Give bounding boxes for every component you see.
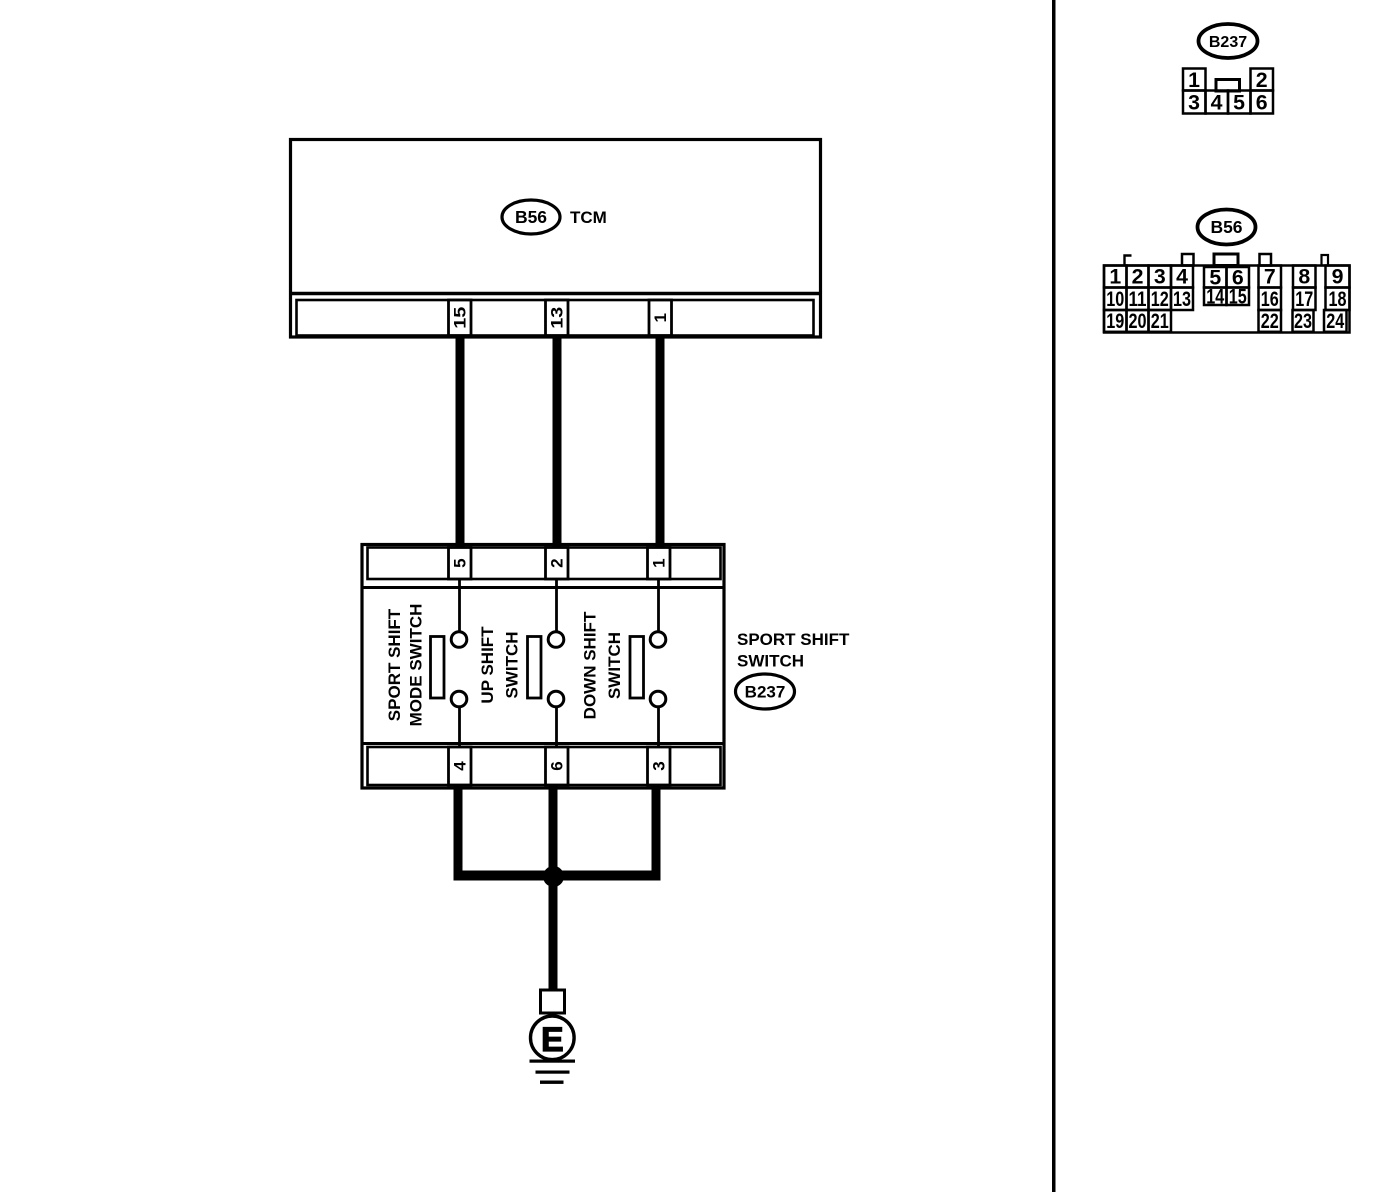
ground terminal E circle xyxy=(531,1016,575,1060)
svg-text:18: 18 xyxy=(1329,287,1347,311)
svg-text:B237: B237 xyxy=(745,683,786,702)
svg-text:2: 2 xyxy=(548,558,567,567)
svg-text:13: 13 xyxy=(548,307,567,329)
switch body bottom line xyxy=(362,742,724,745)
TCM connector separator line xyxy=(289,292,822,295)
B56 connector tab B xyxy=(1182,254,1194,266)
B56 connector pin 21 xyxy=(1149,309,1172,333)
svg-text:21: 21 xyxy=(1151,309,1169,333)
down shift switch actuator bar xyxy=(630,637,644,699)
down shift switch lower contact xyxy=(650,691,666,707)
svg-text:B56: B56 xyxy=(515,207,547,227)
B56 connector tab C xyxy=(1214,254,1238,266)
label SPORT SHIFT SWITCH xyxy=(737,630,850,671)
B56 connector pin 2 xyxy=(1127,265,1149,289)
svg-text:SWITCH: SWITCH xyxy=(503,631,522,698)
sport shift mode switch actuator bar xyxy=(431,637,445,699)
connector oval B56 in TCM xyxy=(502,200,560,234)
up shift switch upper contact xyxy=(548,632,564,648)
ground symbol line 1 xyxy=(530,1060,576,1063)
switch pin 5 xyxy=(449,548,472,580)
wire switch pin6 down to ground xyxy=(549,784,558,991)
svg-text:4: 4 xyxy=(1176,265,1188,289)
svg-text:DOWN SHIFT: DOWN SHIFT xyxy=(581,611,600,719)
B56 connector pin 13 xyxy=(1171,287,1193,311)
svg-text:13: 13 xyxy=(1173,287,1191,311)
sport shift mode switch lower contact xyxy=(451,691,467,707)
switch top connector strip xyxy=(368,548,721,580)
svg-text:2: 2 xyxy=(1132,265,1144,289)
B56 connector pin 5 xyxy=(1204,265,1227,289)
label UP SHIFT SWITCH xyxy=(478,626,522,704)
B237 connector pin 1 xyxy=(1183,68,1206,92)
B56 connector pin 18 xyxy=(1326,287,1350,311)
svg-text:1: 1 xyxy=(1188,68,1200,92)
svg-text:B237: B237 xyxy=(1209,34,1247,51)
B56 connector pin 23 xyxy=(1293,309,1314,333)
B237 connector pin 2 xyxy=(1251,68,1274,92)
switch pin 1 xyxy=(648,548,671,580)
svg-text:15: 15 xyxy=(1229,284,1247,308)
B56 connector tab E xyxy=(1322,255,1329,266)
svg-text:B56: B56 xyxy=(1210,217,1242,237)
label SPORT SHIFT MODE SWITCH xyxy=(385,604,426,727)
ground symbol line 3 xyxy=(540,1081,564,1084)
connector oval B237 beside switch xyxy=(736,674,795,709)
svg-text:14: 14 xyxy=(1206,284,1224,308)
B56 connector pin 1 xyxy=(1104,265,1127,289)
svg-text:8: 8 xyxy=(1298,265,1310,289)
svg-text:1: 1 xyxy=(1109,265,1121,289)
B56 connector pin 20 xyxy=(1127,309,1149,333)
up shift switch: wire pin2 to contact xyxy=(555,579,558,633)
right panel: connector oval B237 xyxy=(1199,24,1258,58)
B56 connector pin 4 xyxy=(1171,265,1193,289)
switch bottom connector strip xyxy=(368,747,721,785)
switch pin 3 xyxy=(648,747,671,785)
switch pin 4 xyxy=(449,747,472,785)
svg-text:MODE SWITCH: MODE SWITCH xyxy=(407,604,426,727)
svg-text:10: 10 xyxy=(1106,287,1124,311)
B56 connector pin 3 xyxy=(1149,265,1172,289)
TCM pin 1 xyxy=(649,300,672,336)
svg-text:SWITCH: SWITCH xyxy=(605,632,624,699)
B237 connector pin 3 xyxy=(1183,91,1206,115)
sport shift mode switch: wire pin5 to contact xyxy=(458,579,461,633)
svg-text:3: 3 xyxy=(1154,265,1166,289)
B237 connector pin 6 xyxy=(1251,91,1274,115)
wire TCM pin13 to switch pin2 xyxy=(553,335,562,548)
svg-text:23: 23 xyxy=(1294,309,1312,333)
svg-text:6: 6 xyxy=(1256,91,1268,115)
up shift switch: wire contact to pin6 xyxy=(555,707,558,748)
B56 connector outer shell xyxy=(1104,266,1350,333)
sport shift mode switch: wire contact to pin4 xyxy=(458,707,461,748)
B56 connector pin 12 xyxy=(1149,287,1172,311)
wire switch pin3 down xyxy=(652,784,661,876)
TCM pin 13 xyxy=(546,300,569,336)
svg-text:E: E xyxy=(541,1021,564,1059)
B237 connector pin 4 xyxy=(1206,91,1229,115)
wire TCM pin15 to switch pin5 xyxy=(456,335,465,548)
B56 connector pin 17 xyxy=(1293,287,1316,311)
svg-text:17: 17 xyxy=(1295,287,1313,311)
B56 connector pin 8 xyxy=(1293,265,1316,289)
down shift switch: wire pin1 to contact xyxy=(657,579,660,633)
B56 connector pin 11 xyxy=(1127,287,1149,311)
svg-text:11: 11 xyxy=(1129,287,1147,311)
page divider line xyxy=(1052,0,1056,1192)
svg-text:2: 2 xyxy=(1256,68,1268,92)
svg-text:3: 3 xyxy=(650,761,669,770)
wire TCM pin1 to switch pin1 xyxy=(656,335,665,548)
B237 connector pin 5 xyxy=(1228,91,1251,115)
sport shift switch outer box xyxy=(362,545,724,789)
B56 connector pin 22 xyxy=(1259,309,1282,333)
B56 connector pin 14 xyxy=(1204,284,1227,308)
svg-text:19: 19 xyxy=(1106,309,1124,333)
junction node xyxy=(543,866,564,887)
B56 connector pin 16 xyxy=(1259,287,1282,311)
ground symbol line 2 xyxy=(536,1071,570,1074)
svg-text:16: 16 xyxy=(1261,287,1279,311)
up shift switch lower contact xyxy=(548,691,564,707)
svg-text:20: 20 xyxy=(1129,309,1147,333)
svg-text:1: 1 xyxy=(650,558,669,567)
svg-text:5: 5 xyxy=(1233,91,1245,115)
svg-text:1: 1 xyxy=(651,313,670,322)
B56 connector pin 10 xyxy=(1104,287,1127,311)
B237 connector key tab xyxy=(1216,80,1240,92)
svg-text:4: 4 xyxy=(1211,91,1223,115)
label DOWN SHIFT SWITCH xyxy=(581,611,625,719)
down shift switch: wire contact to pin3 xyxy=(657,707,660,748)
svg-text:SPORT SHIFT: SPORT SHIFT xyxy=(385,608,404,721)
ground connector square xyxy=(541,990,565,1013)
B56 connector pin 15 xyxy=(1227,284,1250,308)
svg-text:12: 12 xyxy=(1151,287,1169,311)
svg-text:SWITCH: SWITCH xyxy=(737,652,804,671)
B56 connector pin 9 xyxy=(1326,265,1350,289)
right panel: connector oval B56 xyxy=(1198,210,1256,245)
B56 connector pin 7 xyxy=(1259,265,1282,289)
down shift switch upper contact xyxy=(650,632,666,648)
B56 connector tab A xyxy=(1125,256,1132,266)
svg-text:22: 22 xyxy=(1261,309,1279,333)
svg-text:TCM: TCM xyxy=(570,208,607,227)
switch body top line xyxy=(362,586,724,589)
B56 connector pin 24 xyxy=(1324,309,1347,333)
horizontal joining wire xyxy=(454,871,661,881)
svg-text:15: 15 xyxy=(451,307,470,329)
switch pin 6 xyxy=(546,747,569,785)
wire switch pin4 down xyxy=(454,784,463,876)
TCM box B56 xyxy=(291,140,821,338)
switch pin 2 xyxy=(546,548,569,580)
B56 connector pin 6 xyxy=(1227,265,1250,289)
svg-text:7: 7 xyxy=(1264,265,1276,289)
B56 connector pin 19 xyxy=(1104,309,1127,333)
svg-text:6: 6 xyxy=(548,761,567,770)
svg-text:4: 4 xyxy=(451,761,470,771)
svg-text:UP SHIFT: UP SHIFT xyxy=(478,626,497,704)
B56 connector tab D xyxy=(1260,254,1272,266)
svg-text:SPORT SHIFT: SPORT SHIFT xyxy=(737,630,850,649)
TCM pin 15 xyxy=(449,300,472,336)
svg-text:9: 9 xyxy=(1332,265,1344,289)
up shift switch actuator bar xyxy=(528,637,542,699)
svg-text:24: 24 xyxy=(1326,309,1344,333)
TCM connector strip xyxy=(297,300,814,336)
svg-text:3: 3 xyxy=(1188,91,1200,115)
sport shift mode switch upper contact xyxy=(451,632,467,648)
svg-text:5: 5 xyxy=(451,558,470,567)
